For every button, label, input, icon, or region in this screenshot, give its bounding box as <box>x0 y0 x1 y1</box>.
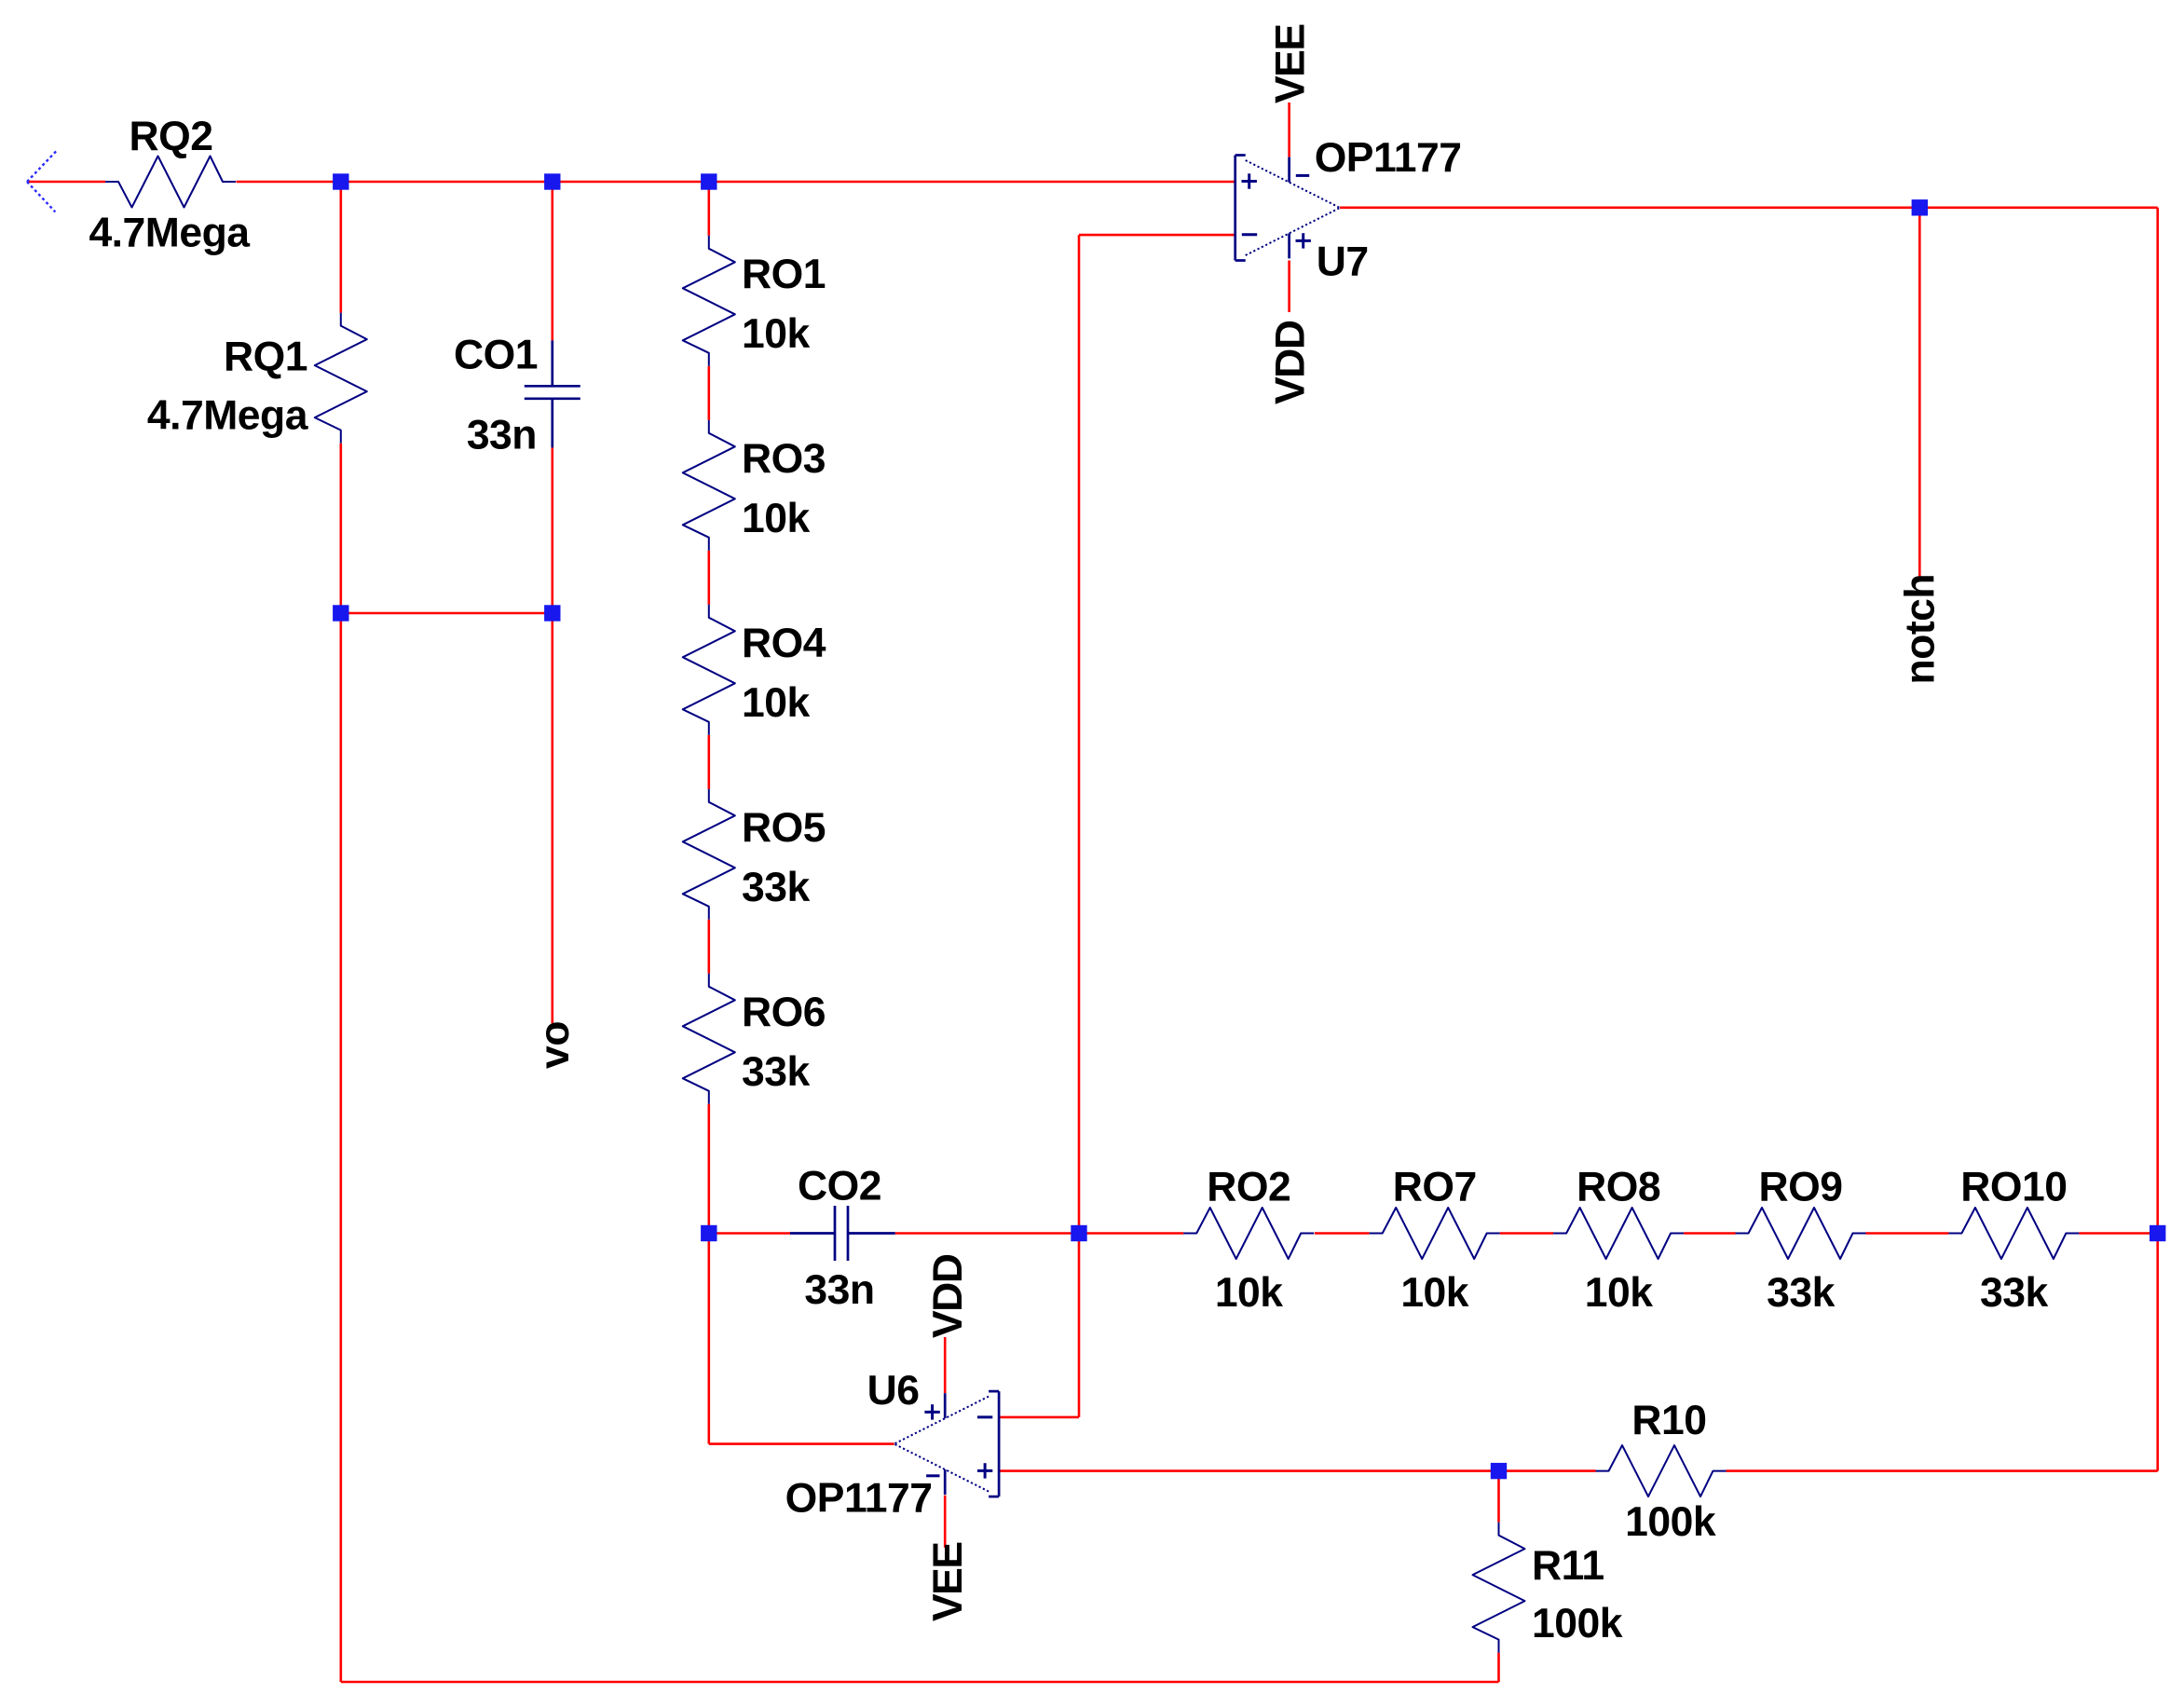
svg-text:10k: 10k <box>742 680 810 726</box>
resistor RO9 <box>1736 1208 1866 1259</box>
svg-text:RO10: RO10 <box>1960 1165 2067 1210</box>
node C (junction) <box>701 173 717 189</box>
svg-text:VDD: VDD <box>1268 321 1314 404</box>
resistor R10 <box>1596 1445 1727 1496</box>
svg-text:10k: 10k <box>742 496 810 541</box>
wire RO1-RO3 <box>707 366 710 420</box>
wire RO8-RO9 <box>1684 1232 1735 1235</box>
wire RO9-RO10 <box>1866 1232 1949 1235</box>
wire U6 to VEE <box>944 1496 947 1548</box>
port arrow (input) <box>27 151 56 212</box>
svg-text:10k: 10k <box>742 311 810 357</box>
svg-text:10k: 10k <box>1215 1270 1283 1316</box>
svg-text:vo: vo <box>532 1021 578 1069</box>
svg-text:33n: 33n <box>467 412 537 458</box>
svg-text:VEE: VEE <box>1268 24 1314 103</box>
node F (junction) <box>701 1225 717 1241</box>
node D (junction) <box>333 605 348 621</box>
svg-text:4.7Mega: 4.7Mega <box>147 393 309 439</box>
wire CO1 to vo row <box>551 447 553 613</box>
svg-text:U7: U7 <box>1317 239 1369 285</box>
wire to CO2 <box>709 1232 790 1235</box>
svg-text:RO3: RO3 <box>742 436 826 482</box>
wire R10 to right column <box>1727 1469 2158 1472</box>
resistor RO3 <box>683 420 735 551</box>
op-amp U7 OP1177 <box>1235 156 1340 261</box>
svg-text:notch: notch <box>1898 574 1944 685</box>
op-amp U6 OP1177 <box>894 1391 999 1496</box>
node G (junction) <box>1071 1225 1086 1241</box>
resistor RO8 <box>1553 1208 1684 1259</box>
svg-text:OP1177: OP1177 <box>785 1476 933 1522</box>
svg-text:100k: 100k <box>1532 1601 1623 1647</box>
svg-text:RQ2: RQ2 <box>130 114 213 159</box>
wire to U6 output <box>709 1442 894 1445</box>
wire VDD to U6 <box>944 1337 947 1393</box>
wire to U7 -in <box>1079 234 1235 237</box>
svg-text:CO1: CO1 <box>454 333 538 378</box>
svg-text:R10: R10 <box>1631 1398 1706 1443</box>
wire vo row <box>341 612 553 615</box>
node H (junction) <box>2150 1225 2165 1241</box>
wire RO5-RO6 <box>707 920 710 974</box>
svg-text:RO2: RO2 <box>1207 1165 1290 1210</box>
wire U7 -in feedback column <box>1078 235 1081 1417</box>
svg-text:33k: 33k <box>742 1049 810 1095</box>
node I (junction) <box>1491 1463 1507 1479</box>
wire VEE to U7 <box>1288 102 1290 157</box>
wire down to CO1 <box>551 182 553 340</box>
wire down to RQ1 <box>339 182 342 313</box>
resistor RO1 <box>683 236 735 366</box>
node E (junction) <box>544 605 560 621</box>
svg-text:33k: 33k <box>742 865 810 910</box>
resistor RQ2 <box>105 157 236 208</box>
svg-text:RO1: RO1 <box>742 252 826 297</box>
svg-text:RO9: RO9 <box>1759 1165 1843 1210</box>
wire R11 to bottom row <box>1497 1653 1500 1682</box>
wire top to RO1 <box>707 182 710 236</box>
wire U6 +in to R10 node <box>999 1469 1498 1472</box>
resistor RO7 <box>1370 1208 1500 1259</box>
wire RQ1 to vo row <box>339 444 342 613</box>
svg-text:RO4: RO4 <box>742 621 826 666</box>
svg-text:RQ1: RQ1 <box>224 335 307 380</box>
svg-text:CO2: CO2 <box>798 1164 881 1209</box>
capacitor CO2 <box>790 1206 895 1261</box>
resistor RO5 <box>683 789 735 920</box>
svg-text:4.7Mega: 4.7Mega <box>89 211 251 256</box>
resistor R11 <box>1473 1523 1525 1653</box>
resistor RO10 <box>1948 1208 2079 1259</box>
wire right column <box>2156 208 2159 1471</box>
node B (junction) <box>544 173 560 189</box>
svg-text:VEE: VEE <box>925 1542 971 1621</box>
wire bottom row <box>341 1681 1499 1684</box>
wire U7 output row <box>1340 207 2158 210</box>
resistor RO4 <box>683 605 735 735</box>
wire input to RQ2 <box>27 181 105 184</box>
wire RO6 to CO2 row <box>707 1104 710 1234</box>
svg-text:R11: R11 <box>1532 1543 1604 1589</box>
svg-text:33k: 33k <box>1767 1270 1835 1316</box>
wire RO10 to right column <box>2079 1232 2157 1235</box>
wire U7 to VDD <box>1288 261 1290 313</box>
svg-text:100k: 100k <box>1625 1499 1716 1545</box>
resistor RQ1 <box>315 313 367 444</box>
wire CO2 node down <box>707 1234 710 1444</box>
wire RO3-RO4 <box>707 551 710 605</box>
svg-text:VDD: VDD <box>925 1254 971 1338</box>
node notch tap (junction) <box>1912 199 1928 215</box>
svg-text:RO5: RO5 <box>742 805 826 851</box>
wire U6 -in <box>999 1416 1079 1419</box>
svg-text:RO7: RO7 <box>1393 1165 1477 1210</box>
wire node to R11 <box>1497 1471 1500 1523</box>
node A (junction) <box>333 173 348 189</box>
svg-text:33n: 33n <box>804 1267 874 1313</box>
svg-text:10k: 10k <box>1400 1270 1468 1316</box>
wire RO4-RO5 <box>707 735 710 789</box>
wire to node notch <box>1918 208 1921 578</box>
wire RO7-RO8 <box>1500 1232 1553 1235</box>
wire left column down <box>339 613 342 1682</box>
wire RO2-RO7 <box>1315 1232 1370 1235</box>
svg-text:U6: U6 <box>867 1368 920 1414</box>
svg-text:10k: 10k <box>1585 1270 1653 1316</box>
wire top row to U7 +in <box>237 181 1235 184</box>
capacitor CO1 <box>525 340 580 447</box>
svg-text:RO6: RO6 <box>742 990 826 1035</box>
svg-text:RO8: RO8 <box>1577 1165 1660 1210</box>
wire CO2 to RO2 <box>895 1232 1183 1235</box>
svg-text:OP1177: OP1177 <box>1315 135 1462 181</box>
resistor RO2 <box>1183 1208 1314 1259</box>
wire node to R10 <box>1499 1469 1596 1472</box>
wire to node vo <box>551 613 553 1023</box>
resistor RO6 <box>683 974 735 1104</box>
svg-text:33k: 33k <box>1980 1270 2048 1316</box>
